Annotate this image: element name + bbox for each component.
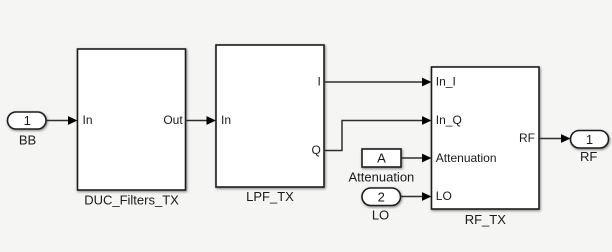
svg-text:I: I bbox=[317, 75, 320, 89]
svg-text:DUC_Filters_TX: DUC_Filters_TX bbox=[84, 193, 179, 208]
block DUC_Filters_TX bbox=[78, 49, 186, 208]
svg-text:LO: LO bbox=[372, 208, 389, 223]
svg-text:RF: RF bbox=[519, 131, 535, 145]
wire BB to DUC In bbox=[46, 116, 78, 125]
svg-text:RF: RF bbox=[580, 149, 597, 164]
svg-text:Attenuation: Attenuation bbox=[436, 151, 497, 165]
inport 2 (LO) bbox=[362, 188, 401, 223]
svg-text:In: In bbox=[83, 113, 93, 127]
svg-text:In_Q: In_Q bbox=[436, 113, 462, 127]
block RF_TX bbox=[432, 67, 540, 227]
svg-text:2: 2 bbox=[378, 189, 385, 204]
svg-text:1: 1 bbox=[586, 132, 593, 147]
outport 1 (RF) bbox=[571, 131, 609, 165]
wire LPF I to RF_TX In_I bbox=[324, 78, 432, 87]
svg-text:Out: Out bbox=[163, 113, 183, 127]
svg-text:RF_TX: RF_TX bbox=[465, 212, 507, 227]
svg-text:Attenuation: Attenuation bbox=[349, 169, 415, 184]
wire A to RF_TX Attenuation bbox=[401, 154, 432, 163]
svg-text:Q: Q bbox=[311, 143, 320, 157]
svg-text:In_I: In_I bbox=[436, 75, 456, 89]
constant block A bbox=[349, 149, 415, 184]
wire LO to RF_TX LO bbox=[401, 192, 432, 201]
svg-text:In: In bbox=[221, 113, 231, 127]
inport 1 (BB) bbox=[8, 112, 47, 148]
svg-text:BB: BB bbox=[19, 133, 36, 148]
svg-text:LO: LO bbox=[436, 189, 452, 203]
svg-text:A: A bbox=[377, 151, 386, 166]
svg-text:LPF_TX: LPF_TX bbox=[246, 189, 294, 204]
wire DUC Out to LPF In bbox=[186, 116, 217, 125]
block LPF_TX bbox=[216, 45, 324, 204]
svg-text:1: 1 bbox=[24, 113, 31, 128]
wire LPF Q to RF_TX In_Q bbox=[324, 116, 432, 150]
wire RF_TX RF to outport bbox=[539, 134, 571, 143]
